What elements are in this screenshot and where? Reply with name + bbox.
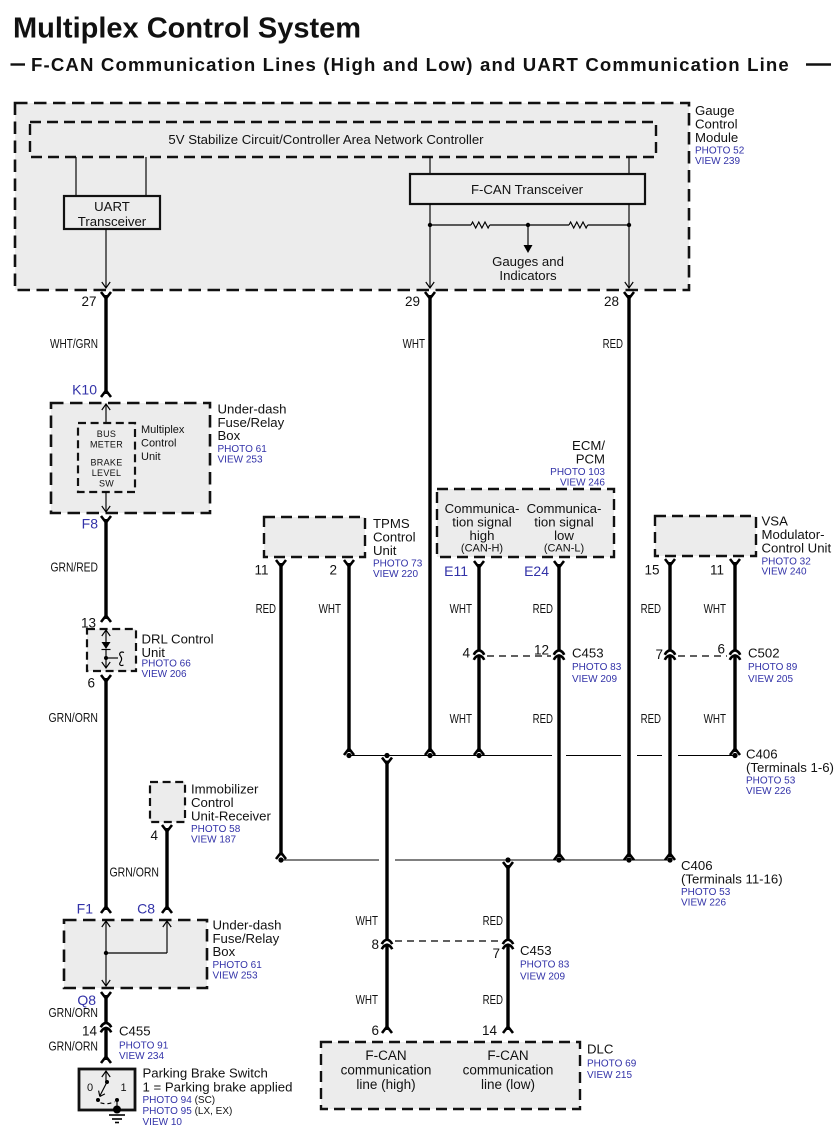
node C406-15 (VSA-15) [667,857,672,862]
svg-text:DLC: DLC [587,1042,614,1057]
connector E24 [524,561,564,579]
svg-text:6: 6 [371,1023,379,1038]
svg-text:F-CAN Transceiver: F-CAN Transceiver [471,182,584,197]
svg-text:WHT: WHT [356,992,378,1007]
svg-text:C502: C502 [748,646,780,661]
node C406-11 (TPMS-11) [278,857,283,862]
svg-text:Indicators: Indicators [499,268,557,283]
pin 2 (TPMS) [329,560,354,578]
connector C453 (pins 4/12) [462,643,564,661]
svg-text:2: 2 [329,563,337,578]
connector C406 (terminals 11-16) label [681,858,783,909]
svg-text:PCM: PCM [576,451,605,466]
svg-text:Box: Box [213,944,236,959]
node DRL junction [104,656,108,660]
parking brake switch label [143,1066,293,1129]
node resistor-right [627,223,631,227]
svg-text:GRN/ORN: GRN/ORN [110,865,160,880]
node C406-12 (DLC low tap) [505,857,510,862]
gauges and indicators arrow [524,225,533,253]
pin 15 (VSA) [644,559,675,578]
svg-text:PHOTO 83: PHOTO 83 [572,662,622,673]
svg-text:VIEW 206: VIEW 206 [142,669,187,680]
svg-text:RED: RED [641,711,661,726]
VSA modulator-control unit label [762,514,832,578]
svg-text:RED: RED [533,601,553,616]
gauges and indicators label [492,254,564,283]
svg-text:WHT: WHT [704,711,726,726]
TPMS control unit label [373,516,423,580]
svg-text:11: 11 [710,563,724,578]
svg-text:Parking Brake Switch: Parking Brake Switch [143,1066,268,1081]
svg-text:(Terminals 11-16): (Terminals 11-16) [681,871,783,886]
svg-text:F-CAN: F-CAN [365,1048,406,1063]
svg-text:11: 11 [254,563,268,578]
svg-text:VIEW 246: VIEW 246 [560,478,605,489]
wire RED E24 to C406(11-16) [554,564,564,860]
svg-text:14: 14 [482,1023,498,1038]
node C406-4 (E11) [476,753,481,758]
svg-text:VIEW 240: VIEW 240 [762,567,807,578]
under-dash fuse/relay box (top) label [218,401,287,465]
ECM/PCM label [550,438,605,489]
svg-text:VIEW 220: VIEW 220 [373,569,418,580]
connector E11 [444,561,484,579]
connector C455 label [119,1024,169,1063]
relay coil symbol in DRL unit [106,652,124,665]
svg-text:VIEW 209: VIEW 209 [520,972,565,983]
wire WHT pin29 to C406(1-6) [425,295,435,755]
connector C453 (pins 4/12) label [572,646,622,686]
svg-text:VIEW 226: VIEW 226 [681,898,726,909]
node resistor-mid [526,223,530,227]
wire GRN/ORN C455 to parking brake switch [101,1028,111,1063]
wire UART to pin 27 [102,229,110,288]
svg-text:PHOTO 95 (LX, EX): PHOTO 95 (LX, EX) [143,1106,233,1117]
F-CAN communication line (high) label [341,1048,432,1092]
wire F1 through box to Q8 [102,921,110,986]
svg-text:1: 1 [120,1082,126,1094]
svg-text:PHOTO 53: PHOTO 53 [681,887,731,898]
svg-text:PHOTO 103: PHOTO 103 [550,467,605,478]
wire 5V box to F-CAN transceiver (left) [429,157,431,174]
connector C455 pin 14 [82,1023,111,1039]
svg-text:K10: K10 [72,382,97,398]
connector C406 (terminals 1-6) label [746,747,834,798]
connector C502 (pins 7/6) [655,642,740,663]
gauge control module label [695,103,745,167]
svg-text:7: 7 [492,946,500,961]
wire F-CAN to pin 29 [426,204,434,288]
svg-text:WHT: WHT [319,601,341,616]
svg-text:4: 4 [462,646,470,661]
multiplex control unit [78,423,135,492]
svg-text:RED: RED [603,336,623,351]
svg-text:8: 8 [371,937,379,952]
svg-text:(CAN-L): (CAN-L) [544,543,584,555]
svg-text:PHOTO 94 (SC): PHOTO 94 (SC) [143,1095,216,1106]
svg-text:Unit: Unit [141,451,161,463]
svg-text:WHT/GRN: WHT/GRN [50,336,98,351]
multiplex control unit label [141,424,185,463]
node C406-5 (VSA-11) [732,753,737,758]
wire RED TPMS-11 to C406(11-16) [276,563,286,859]
svg-text:VIEW 253: VIEW 253 [213,970,258,981]
svg-text:C453: C453 [520,943,552,958]
5V stabilize circuit/controller area network controller [30,122,656,157]
svg-text:6: 6 [717,642,725,657]
svg-text:(Terminals 1-6): (Terminals 1-6) [746,760,834,775]
wire WHT/GRN pin27 to K10 [101,295,111,397]
svg-text:RED: RED [533,711,553,726]
svg-text:VIEW 187: VIEW 187 [191,835,236,846]
svg-text:12: 12 [534,643,549,658]
svg-text:(CAN-H): (CAN-H) [461,543,503,555]
wire WHT C406(1-6) to DLC-6 [382,758,392,1034]
ground [109,1106,125,1123]
wire WHT E11 to C406(1-6) [474,564,484,755]
pin 29 [405,292,435,309]
communication signal low label [527,501,602,555]
pin 28 [604,292,634,309]
DRL control unit label [142,632,214,680]
gauge control module [15,103,689,290]
wire GRN/ORN Q8 to C455 [101,992,111,1023]
svg-text:4: 4 [150,828,158,843]
node C406-2 (DLC high tap) [384,753,389,758]
svg-text:VIEW 205: VIEW 205 [748,674,793,685]
svg-text:RED: RED [483,992,503,1007]
svg-text:RED: RED [641,601,661,616]
svg-text:C8: C8 [137,901,155,917]
svg-text:WHT: WHT [450,711,472,726]
wire WHT VSA-11 to C406(1-6) [730,562,740,755]
pin 27 [81,292,111,309]
svg-text:VIEW 10: VIEW 10 [143,1117,183,1128]
svg-text:F8: F8 [82,516,99,532]
svg-text:Module: Module [695,130,738,145]
svg-text:Control: Control [141,438,176,450]
svg-text:PHOTO 52: PHOTO 52 [695,146,745,157]
connector C453 (pins 8/7) [371,937,513,961]
wire GRN/ORN DRL to F1 [101,675,111,913]
svg-text:Box: Box [218,428,241,443]
svg-text:E11: E11 [444,563,468,579]
svg-text:GRN/ORN: GRN/ORN [49,1005,99,1020]
svg-text:PHOTO 91: PHOTO 91 [119,1041,169,1052]
wire WHT TPMS-2 to C406(1-6) [344,563,354,755]
svg-text:7: 7 [655,647,663,662]
svg-text:15: 15 [644,563,659,578]
svg-text:PHOTO 32: PHOTO 32 [762,556,812,567]
node C406-3 (pin29) [427,753,432,758]
svg-text:PHOTO 66: PHOTO 66 [142,659,192,670]
node C406-14 (pin28) [626,857,631,862]
svg-text:Multiplex: Multiplex [141,424,185,436]
wire 5V box to F-CAN transceiver (right) [628,157,630,174]
wire RED C406(11-16) to DLC-14 [503,862,513,1033]
parking brake switch mechanism [87,1071,127,1109]
svg-text:GRN/RED: GRN/RED [51,560,99,575]
wire 5V box to UART transceiver (left) [75,157,77,196]
node C406-13 (E24) [556,857,561,862]
subtitle [11,54,832,75]
svg-text:Control Unit: Control Unit [762,541,832,556]
connector C502 label [748,646,798,686]
brake level sw [90,458,122,489]
svg-text:PHOTO 61: PHOTO 61 [218,444,268,455]
bus meter [90,429,123,450]
svg-text:RED: RED [256,601,276,616]
svg-text:VIEW 239: VIEW 239 [695,156,740,167]
svg-text:Multiplex Control System: Multiplex Control System [13,13,361,45]
svg-text:UART: UART [94,199,130,214]
pin 11 (VSA) [710,559,740,578]
svg-text:PHOTO 69: PHOTO 69 [587,1059,637,1070]
svg-text:GRN/ORN: GRN/ORN [49,710,99,725]
node resistor-left [428,223,432,227]
svg-text:high: high [470,528,495,543]
svg-text:line (low): line (low) [481,1077,535,1092]
node F1/C8 junction [104,951,108,955]
DLC box [321,1042,580,1109]
svg-text:C453: C453 [572,646,604,661]
svg-text:14: 14 [82,1024,98,1039]
svg-text:28: 28 [604,294,619,309]
ECM/PCM box [437,489,614,557]
svg-text:PHOTO 53: PHOTO 53 [746,776,796,787]
svg-text:C455: C455 [119,1024,151,1039]
svg-text:F1: F1 [77,901,94,917]
svg-text:Transceiver: Transceiver [78,214,147,229]
svg-text:line (high): line (high) [356,1077,415,1092]
svg-text:PHOTO 61: PHOTO 61 [213,960,263,971]
svg-text:Gauges and: Gauges and [492,254,564,269]
terminating resistor R2 [528,222,629,228]
VSA modulator-control unit [655,516,756,556]
svg-text:VIEW 253: VIEW 253 [218,454,263,465]
svg-text:Unit-Receiver: Unit-Receiver [191,808,271,823]
TPMS control unit [264,517,365,557]
svg-text:low: low [554,528,574,543]
under-dash fuse/relay box (bottom) label [213,917,282,981]
svg-text:VIEW 209: VIEW 209 [572,674,617,685]
connector C406 terminals 1-6 line [349,755,735,757]
svg-text:PHOTO 89: PHOTO 89 [748,662,798,673]
connector C453 (pins 8/7) label [520,943,570,983]
DRL control unit [87,629,136,671]
UART transceiver [64,196,160,229]
svg-text:communication: communication [341,1063,432,1078]
svg-text:BUS: BUS [97,429,116,439]
immobilizer control unit-receiver label [191,782,271,846]
svg-text:5V Stabilize Circuit/Controlle: 5V Stabilize Circuit/Controller Area Net… [168,132,484,147]
wire GRN/RED F8 to DRL pin 13 [101,516,111,622]
under-dash fuse/relay box (bottom) [64,920,207,988]
svg-text:PHOTO 73: PHOTO 73 [373,559,423,570]
svg-text:PHOTO 83: PHOTO 83 [520,960,570,971]
immobilizer control unit-receiver [150,782,185,822]
svg-text:F-CAN Communication Lines (Hig: F-CAN Communication Lines (High and Low)… [31,54,790,75]
communication signal high label [445,501,520,555]
wire RED VSA-15 to C406(11-16) [665,562,675,860]
wire K10 into multiplex control unit [102,404,110,423]
node C406-1 (TPMS-2) [346,753,351,758]
wire F-CAN to pin 28 [625,204,633,288]
wire C8 joins F1 wire [106,921,171,953]
svg-text:WHT: WHT [403,336,425,351]
svg-text:RED: RED [483,913,503,928]
svg-text:F-CAN: F-CAN [487,1048,528,1063]
svg-text:GRN/ORN: GRN/ORN [49,1039,99,1054]
svg-text:communication: communication [463,1063,554,1078]
svg-text:27: 27 [81,294,96,309]
under-dash fuse/relay box (top) [51,403,210,513]
terminating resistor R1 [430,222,528,228]
svg-text:PHOTO 58: PHOTO 58 [191,824,241,835]
svg-text:VIEW 234: VIEW 234 [119,1051,164,1062]
svg-text:29: 29 [405,294,420,309]
svg-text:E24: E24 [524,563,549,579]
DLC label [587,1042,637,1082]
diode D1 in DRL unit [102,630,111,668]
parking brake switch [79,1069,135,1110]
wire GRN/ORN immobilizer to C8 [162,825,172,913]
svg-text:1 = Parking brake applied: 1 = Parking brake applied [143,1080,293,1095]
svg-text:0: 0 [87,1082,93,1094]
F-CAN communication line (low) label [463,1048,554,1092]
svg-text:6: 6 [87,676,95,691]
svg-text:Unit: Unit [373,543,397,558]
svg-text:SW: SW [99,479,114,489]
svg-text:WHT: WHT [356,913,378,928]
svg-text:LEVEL: LEVEL [92,468,122,478]
wire multiplex unit to F8 [102,492,110,512]
connector C406 terminals 11-16 line [281,859,670,861]
F-CAN transceiver [410,174,645,204]
svg-text:VIEW 226: VIEW 226 [746,786,791,797]
wire 5V box to UART transceiver (right) [145,157,147,196]
svg-text:BRAKE: BRAKE [90,458,122,468]
svg-text:WHT: WHT [704,601,726,616]
svg-text:WHT: WHT [450,601,472,616]
svg-text:METER: METER [90,440,123,450]
svg-text:VIEW 215: VIEW 215 [587,1070,632,1081]
wire RED pin28 to C406(11-16) [624,295,634,860]
pin 11 (TPMS) [254,560,286,578]
